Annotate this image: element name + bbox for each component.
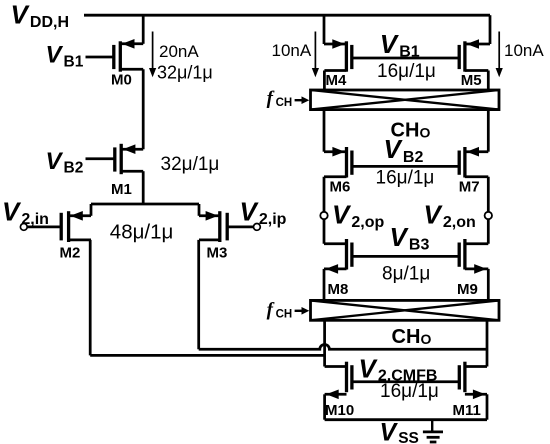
svg-text:32μ/1μ: 32μ/1μ xyxy=(157,63,213,83)
svg-text:10nA: 10nA xyxy=(272,41,312,60)
svg-text:SS: SS xyxy=(398,430,419,444)
svg-text:10nA: 10nA xyxy=(504,41,544,60)
svg-text:B1: B1 xyxy=(399,44,420,61)
svg-text:M3: M3 xyxy=(207,245,228,262)
svg-text:V: V xyxy=(46,148,64,175)
svg-text:V: V xyxy=(390,222,410,252)
svg-text:2,in: 2,in xyxy=(21,211,49,228)
svg-text:V: V xyxy=(424,200,444,230)
svg-text:2,ip: 2,ip xyxy=(259,211,287,228)
svg-text:O: O xyxy=(421,331,432,347)
svg-text:M9: M9 xyxy=(457,281,478,298)
svg-text:V: V xyxy=(332,200,352,230)
svg-text:M6: M6 xyxy=(330,179,351,196)
svg-text:M2: M2 xyxy=(60,245,81,262)
svg-text:M0: M0 xyxy=(111,71,132,88)
svg-text:O: O xyxy=(420,125,431,141)
svg-text:V: V xyxy=(359,354,379,384)
svg-text:V: V xyxy=(380,29,400,59)
svg-text:2,op: 2,op xyxy=(351,214,384,231)
svg-text:CH: CH xyxy=(276,97,293,109)
svg-text:M7: M7 xyxy=(459,179,480,196)
svg-text:32μ/1μ: 32μ/1μ xyxy=(161,154,220,175)
svg-text:CH: CH xyxy=(391,120,420,142)
svg-text:M10: M10 xyxy=(325,402,354,419)
svg-text:16μ/1μ: 16μ/1μ xyxy=(380,381,439,402)
svg-text:V: V xyxy=(11,0,31,29)
svg-text:2,on: 2,on xyxy=(443,214,476,231)
svg-text:V: V xyxy=(46,42,64,69)
svg-text:8μ/1μ: 8μ/1μ xyxy=(382,264,430,285)
svg-text:16μ/1μ: 16μ/1μ xyxy=(376,167,435,188)
svg-text:B2: B2 xyxy=(403,149,424,166)
svg-text:B3: B3 xyxy=(409,237,430,254)
svg-text:M4: M4 xyxy=(326,72,347,89)
svg-text:16μ/1μ: 16μ/1μ xyxy=(377,61,436,82)
svg-text:M11: M11 xyxy=(453,402,481,419)
svg-text:DD,H: DD,H xyxy=(30,14,69,31)
svg-text:V: V xyxy=(2,196,22,226)
svg-text:B2: B2 xyxy=(64,160,84,177)
svg-text:B1: B1 xyxy=(64,53,84,70)
svg-text:M1: M1 xyxy=(111,181,132,198)
svg-text:48μ/1μ: 48μ/1μ xyxy=(110,221,174,244)
svg-text:CH: CH xyxy=(392,326,421,348)
svg-text:V: V xyxy=(240,196,260,226)
svg-text:20nA: 20nA xyxy=(159,42,199,61)
svg-text:CH: CH xyxy=(276,308,293,320)
svg-text:M8: M8 xyxy=(328,281,349,298)
svg-text:M5: M5 xyxy=(461,72,482,89)
svg-text:V: V xyxy=(380,418,399,444)
